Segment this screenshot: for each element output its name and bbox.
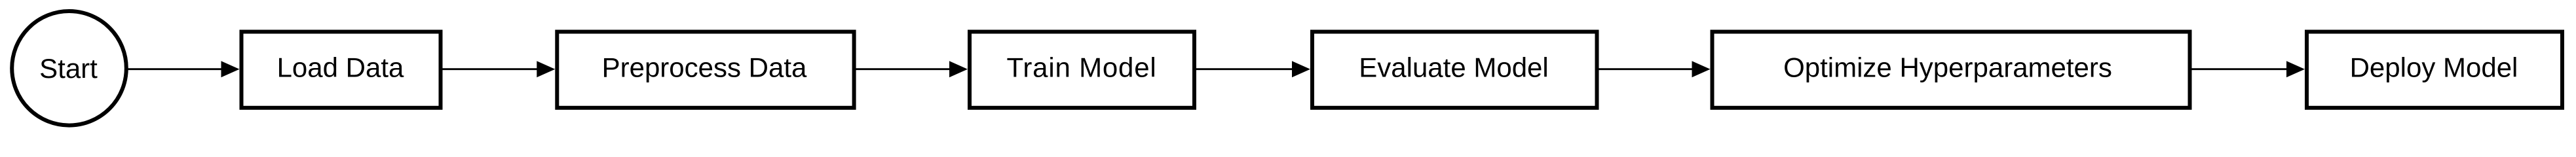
node Start (terminator circle) xyxy=(12,11,126,126)
svg-text:Evaluate Model: Evaluate Model xyxy=(1359,52,1549,83)
arrowhead into Evaluate Model xyxy=(1292,61,1310,77)
svg-text:Optimize Hyperparameters: Optimize Hyperparameters xyxy=(1783,52,2112,83)
arrowhead into Optimize Hyperparameters xyxy=(1692,61,1711,77)
node Deploy Model xyxy=(2307,32,2562,108)
wire Load Data to Preprocess Data xyxy=(442,68,539,70)
svg-text:Load Data: Load Data xyxy=(277,52,404,83)
wire Start to Load Data xyxy=(127,68,223,70)
arrowhead into Train Model xyxy=(949,61,968,77)
node Load Data xyxy=(242,32,441,108)
wire Preprocess Data to Train Model xyxy=(856,68,951,70)
node Optimize Hyperparameters xyxy=(1713,32,2190,108)
wire Train Model to Evaluate Model xyxy=(1196,68,1294,70)
svg-text:Start: Start xyxy=(39,53,98,84)
wire Evaluate Model to Optimize Hyperparameters xyxy=(1599,68,1694,70)
svg-text:Preprocess Data: Preprocess Data xyxy=(602,52,807,83)
svg-text:Train Model: Train Model xyxy=(1007,52,1157,83)
arrowhead into Load Data xyxy=(221,61,240,77)
node Preprocess Data xyxy=(557,32,854,108)
node Train Model xyxy=(970,32,1194,108)
arrowhead into Deploy Model xyxy=(2286,61,2305,77)
wire Optimize Hyperparameters to Deploy Model xyxy=(2191,68,2288,70)
svg-text:Deploy Model: Deploy Model xyxy=(2350,52,2518,83)
arrowhead into Preprocess Data xyxy=(537,61,555,77)
node Evaluate Model xyxy=(1312,32,1597,108)
